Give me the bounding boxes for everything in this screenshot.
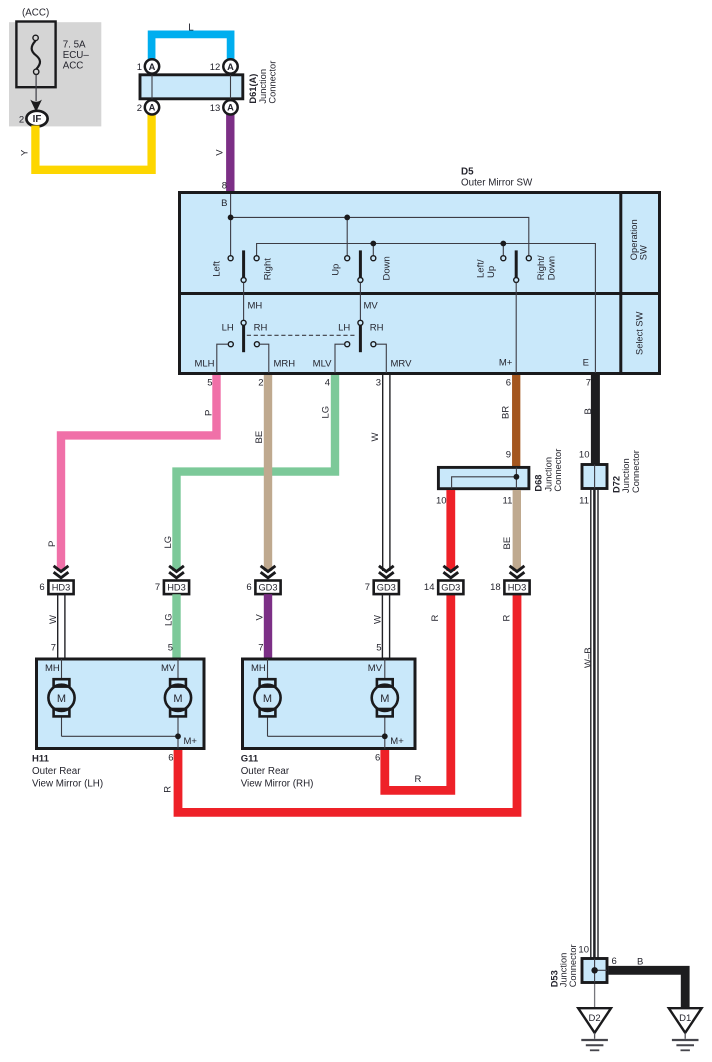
svg-text:Up: Up	[486, 266, 497, 278]
svg-text:Right: Right	[262, 258, 273, 281]
svg-text:R: R	[430, 615, 441, 622]
svg-text:D68: D68	[534, 475, 544, 492]
svg-text:Down: Down	[381, 256, 392, 280]
svg-text:Connector: Connector	[631, 450, 641, 493]
svg-text:HD3: HD3	[167, 582, 186, 592]
svg-text:W: W	[48, 615, 59, 624]
svg-text:LG: LG	[164, 613, 175, 626]
svg-text:(ACC): (ACC)	[22, 8, 49, 19]
svg-text:HD3: HD3	[508, 582, 527, 592]
svg-text:HD3: HD3	[52, 582, 71, 592]
svg-text:6: 6	[612, 956, 617, 967]
svg-text:Connector: Connector	[553, 449, 563, 492]
svg-text:D2: D2	[589, 1013, 601, 1024]
svg-text:H11: H11	[32, 754, 50, 765]
svg-text:2: 2	[137, 103, 142, 114]
svg-text:14: 14	[424, 582, 435, 593]
svg-text:D1: D1	[679, 1013, 691, 1024]
svg-text:MH: MH	[45, 663, 60, 674]
svg-text:V: V	[214, 149, 225, 156]
svg-text:Junction: Junction	[621, 458, 631, 493]
svg-text:View Mirror (LH): View Mirror (LH)	[32, 778, 103, 789]
svg-text:M: M	[380, 693, 389, 705]
svg-text:Y: Y	[19, 149, 30, 156]
svg-text:MH: MH	[248, 301, 263, 312]
svg-text:A: A	[227, 103, 234, 113]
svg-text:R: R	[415, 774, 422, 785]
svg-text:GD3: GD3	[377, 582, 396, 592]
svg-text:1: 1	[137, 62, 142, 73]
svg-text:18: 18	[490, 582, 501, 593]
svg-text:Left/: Left/	[475, 259, 486, 278]
svg-text:Operation: Operation	[629, 219, 639, 260]
svg-text:W: W	[373, 615, 384, 624]
svg-text:B: B	[583, 408, 594, 414]
svg-text:View Mirror (RH): View Mirror (RH)	[241, 778, 314, 789]
svg-text:6: 6	[39, 582, 44, 593]
svg-text:SW: SW	[639, 245, 649, 260]
svg-text:6: 6	[375, 752, 380, 763]
svg-text:LG: LG	[321, 406, 332, 419]
svg-text:R: R	[502, 615, 513, 622]
svg-text:MV: MV	[161, 663, 176, 674]
svg-text:Junction: Junction	[258, 69, 268, 104]
svg-text:5: 5	[376, 643, 381, 654]
svg-text:ACC: ACC	[63, 61, 84, 72]
svg-text:GD3: GD3	[441, 582, 460, 592]
svg-text:3: 3	[376, 378, 381, 389]
svg-text:Outer Rear: Outer Rear	[241, 766, 290, 777]
svg-text:E: E	[583, 358, 589, 369]
svg-text:9: 9	[506, 450, 511, 461]
svg-text:Connector: Connector	[268, 61, 278, 104]
svg-text:Junction: Junction	[543, 457, 553, 492]
svg-text:5: 5	[168, 643, 173, 654]
svg-text:BR: BR	[501, 406, 512, 419]
svg-text:Left: Left	[212, 261, 223, 277]
svg-text:11: 11	[579, 496, 589, 507]
svg-text:A: A	[227, 62, 234, 72]
svg-text:7: 7	[365, 582, 370, 593]
svg-text:D61(A): D61(A)	[248, 74, 258, 104]
svg-text:BE: BE	[254, 431, 265, 444]
svg-text:W: W	[370, 433, 381, 442]
svg-text:Outer Rear: Outer Rear	[32, 766, 81, 777]
svg-text:12: 12	[210, 62, 221, 73]
svg-text:MH: MH	[251, 663, 266, 674]
svg-text:M+: M+	[390, 736, 404, 747]
svg-text:M: M	[263, 693, 272, 705]
svg-text:P: P	[204, 410, 215, 416]
svg-text:A: A	[149, 103, 156, 113]
svg-text:A: A	[149, 62, 156, 72]
svg-text:7: 7	[155, 582, 160, 593]
svg-text:7: 7	[586, 378, 591, 389]
svg-text:MRV: MRV	[391, 359, 413, 370]
svg-text:2: 2	[19, 114, 24, 125]
svg-text:Connector: Connector	[568, 944, 578, 987]
svg-text:B: B	[221, 198, 227, 209]
svg-text:7: 7	[51, 643, 56, 654]
svg-text:R: R	[162, 786, 173, 793]
svg-text:11: 11	[503, 496, 513, 507]
svg-text:7. 5A: 7. 5A	[63, 40, 86, 51]
svg-text:D72: D72	[611, 476, 621, 493]
svg-text:M: M	[173, 693, 182, 705]
svg-text:Right/: Right/	[536, 255, 547, 280]
svg-text:M: M	[57, 693, 66, 705]
svg-text:MLV: MLV	[313, 359, 332, 370]
svg-text:10: 10	[579, 450, 590, 461]
svg-text:MRH: MRH	[274, 359, 296, 370]
svg-text:2: 2	[258, 378, 263, 389]
svg-text:ECU–: ECU–	[63, 50, 90, 61]
svg-text:8: 8	[222, 181, 227, 192]
svg-text:LG: LG	[163, 536, 174, 549]
svg-text:10: 10	[578, 945, 589, 956]
svg-text:MV: MV	[368, 663, 383, 674]
svg-text:LH: LH	[338, 323, 350, 334]
svg-text:RH: RH	[254, 323, 268, 334]
svg-text:B: B	[637, 956, 643, 967]
svg-text:G11: G11	[241, 754, 259, 765]
svg-text:M+: M+	[184, 736, 198, 747]
svg-text:Down: Down	[547, 256, 558, 280]
svg-text:P: P	[47, 541, 58, 547]
svg-text:W–B: W–B	[583, 647, 594, 668]
svg-text:L: L	[188, 22, 194, 33]
svg-text:6: 6	[506, 378, 511, 389]
svg-text:LH: LH	[222, 323, 234, 334]
svg-text:MV: MV	[364, 301, 379, 312]
svg-text:D5: D5	[461, 167, 474, 178]
svg-text:4: 4	[325, 378, 330, 389]
svg-text:7: 7	[258, 643, 263, 654]
svg-text:6: 6	[168, 752, 173, 763]
svg-text:10: 10	[436, 496, 447, 507]
svg-text:6: 6	[246, 582, 251, 593]
svg-text:GD3: GD3	[258, 582, 277, 592]
svg-text:V: V	[255, 614, 266, 621]
svg-text:Select SW: Select SW	[634, 311, 644, 355]
svg-text:M+: M+	[499, 358, 513, 369]
svg-text:Up: Up	[330, 264, 341, 276]
svg-text:IF: IF	[33, 114, 42, 125]
svg-text:MLH: MLH	[194, 359, 214, 370]
svg-text:RH: RH	[370, 323, 384, 334]
svg-text:BE: BE	[502, 537, 513, 550]
svg-text:13: 13	[210, 103, 221, 114]
svg-text:Outer Mirror SW: Outer Mirror SW	[461, 178, 533, 189]
svg-text:5: 5	[207, 378, 212, 389]
